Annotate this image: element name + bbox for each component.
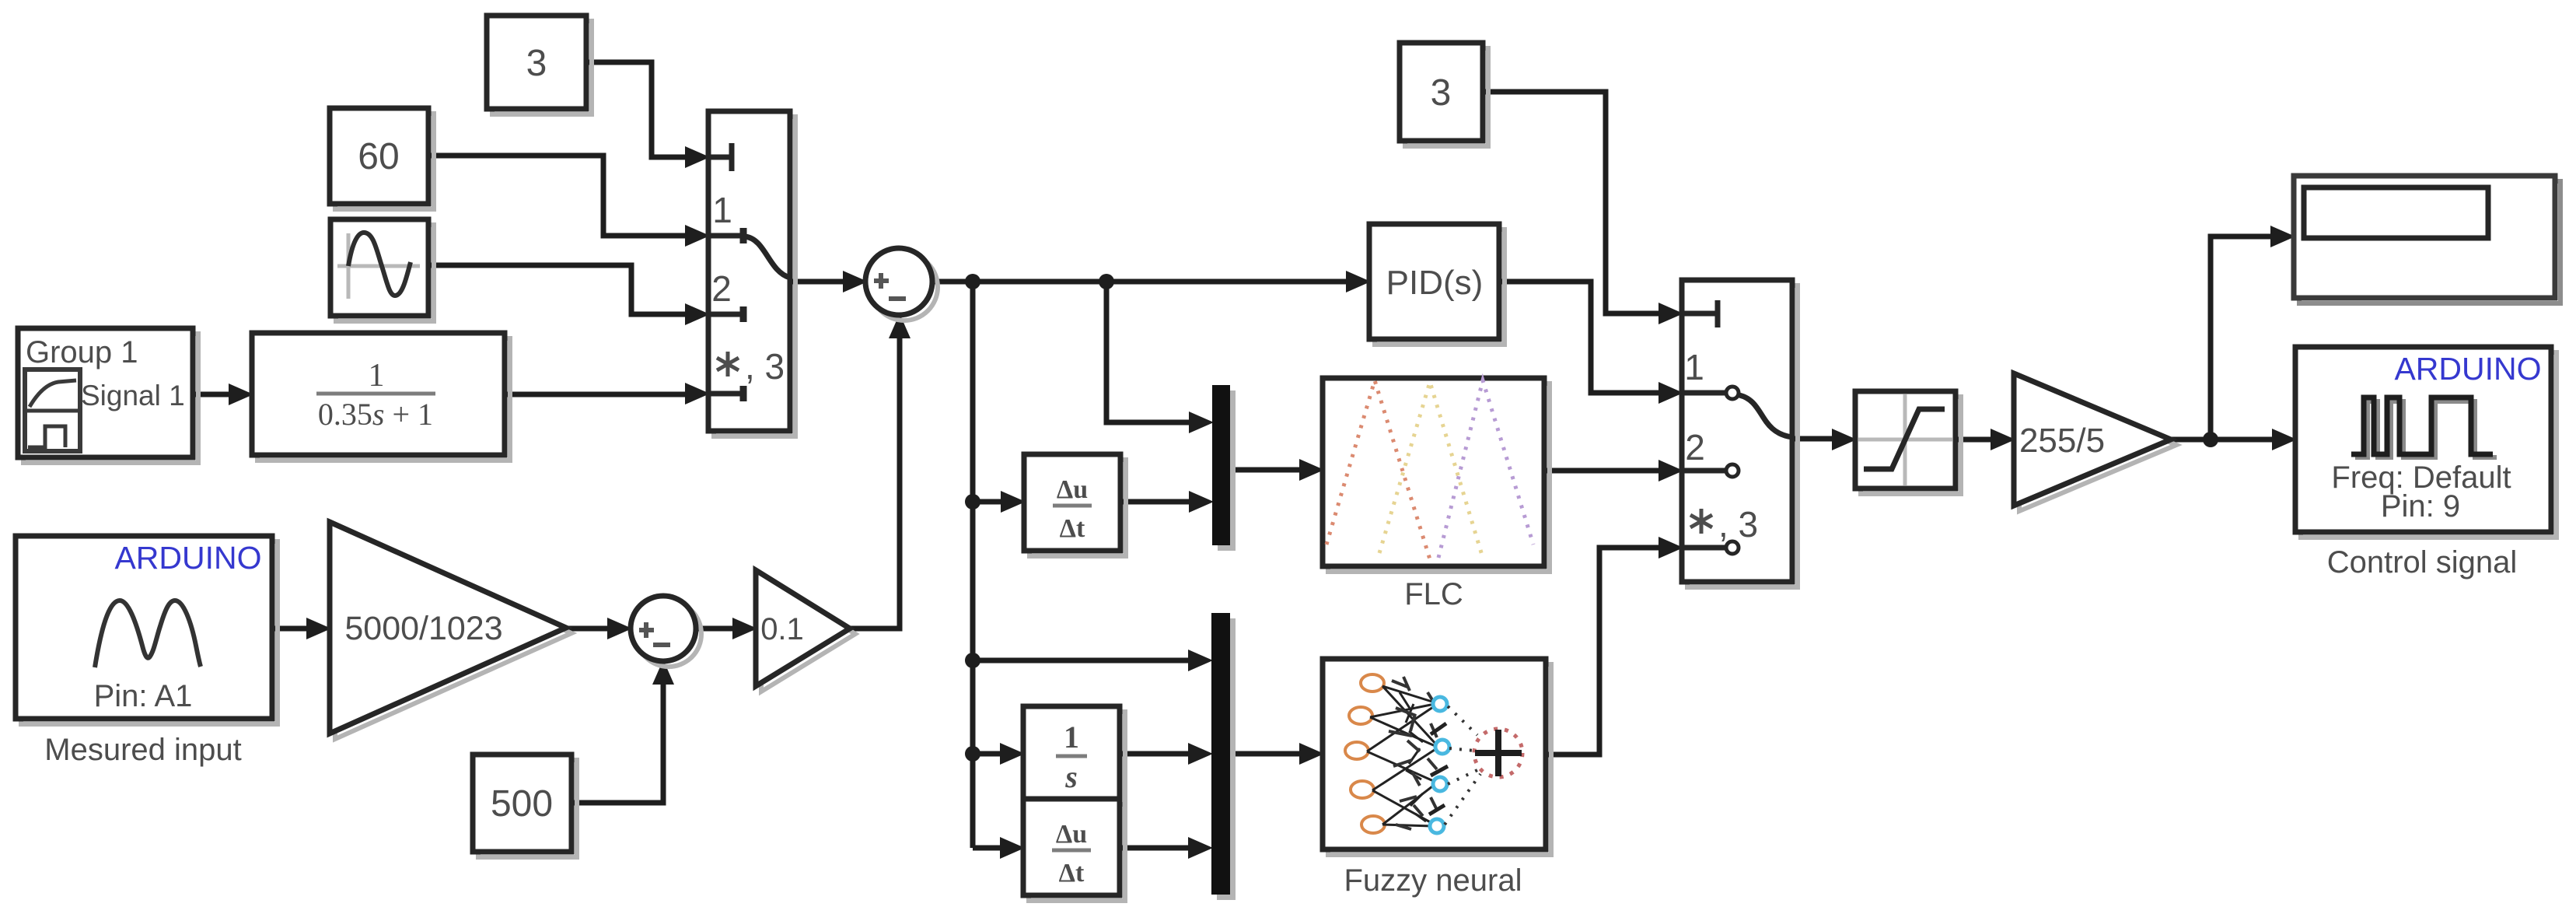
wire to mux2 input 1	[973, 658, 1190, 664]
derivative du/dt 2	[1023, 799, 1125, 901]
wire saturation to gain 255/5	[1956, 437, 1992, 443]
svg-text:5000/1023: 5000/1023	[344, 610, 502, 647]
junction dot B	[1099, 274, 1114, 289]
svg-text:60: 60	[358, 136, 399, 177]
constant 60	[330, 108, 434, 209]
wire switch2 to saturation	[1792, 436, 1833, 442]
wire gain 0.1 up to sum1 minus input	[850, 336, 900, 629]
constant 3 (top left)	[487, 16, 592, 114]
svg-text:FLC: FLC	[1404, 577, 1463, 611]
svg-text:Control signal: Control signal	[2327, 545, 2518, 580]
derivative du/dt 1	[1024, 454, 1126, 556]
wire gain 5000/1023 to sum2	[566, 626, 609, 632]
wire to du/dt 1	[973, 499, 1002, 505]
multiport switch 1	[708, 111, 795, 436]
svg-text:Mesured input: Mesured input	[44, 733, 241, 767]
wire 3a to switch1 port |	[586, 62, 687, 157]
wire transfer fn to switch1 port *,3	[505, 392, 687, 397]
svg-text:Pin: A1: Pin: A1	[94, 679, 193, 713]
svg-text:Δu: Δu	[1056, 820, 1087, 849]
svg-text:255/5: 255/5	[2019, 422, 2105, 460]
constant 500	[473, 755, 577, 857]
sine wave source	[330, 219, 434, 321]
wire FLC to switch2 port 2	[1544, 468, 1660, 474]
wire gain 255/5 to arduino output	[2171, 437, 2274, 443]
transfer fn 1/(0.35s+1)	[252, 333, 510, 460]
wire group1 to transfer fn	[191, 392, 230, 397]
svg-text:3: 3	[1431, 72, 1452, 114]
arduino PWM output block	[2295, 347, 2557, 538]
multiport switch 2	[1682, 280, 1798, 587]
svg-text:0.35s + 1: 0.35s + 1	[318, 397, 433, 432]
svg-text:1: 1	[1684, 347, 1704, 387]
wire switch1 to sum1	[790, 279, 844, 285]
mux 1	[1212, 385, 1236, 551]
svg-text:, 3: , 3	[1718, 504, 1758, 545]
junction dot D	[965, 653, 980, 668]
arduino analog input block	[16, 536, 278, 724]
wire junction F up to display	[2211, 236, 2272, 439]
mux 2	[1211, 613, 1236, 900]
svg-text:1: 1	[369, 358, 385, 394]
svg-text:0.1: 0.1	[760, 612, 804, 646]
wire sum2 to gain 0.1	[696, 626, 734, 632]
wire sine to switch1 port 2	[428, 265, 687, 314]
saturation block	[1855, 391, 1961, 494]
junction dot E	[965, 746, 980, 762]
svg-text:2: 2	[1685, 427, 1705, 468]
svg-text:, 3: , 3	[745, 346, 785, 387]
junction dot C	[965, 494, 980, 510]
wire mux2 to fuzzy neural	[1230, 751, 1301, 757]
integrator 1/s	[1023, 706, 1125, 804]
sum2 circle	[631, 596, 701, 667]
junction dot A	[965, 274, 980, 289]
svg-text:Fuzzy neural: Fuzzy neural	[1344, 863, 1522, 898]
wire branch B down to mux1 input 1	[1106, 282, 1190, 422]
sum1 circle	[865, 248, 938, 320]
display block	[2294, 176, 2560, 303]
wire to integrator 1/s	[973, 751, 1001, 757]
svg-text:500: 500	[491, 783, 553, 825]
svg-text:Δt: Δt	[1059, 859, 1085, 888]
FLC fuzzy logic controller	[1323, 378, 1550, 572]
wire integrator to mux2 input 2	[1120, 751, 1190, 757]
wire branch A vertical trunk	[970, 282, 976, 848]
svg-text:1: 1	[712, 190, 732, 230]
svg-text:2: 2	[711, 268, 732, 309]
svg-text:ARDUINO: ARDUINO	[114, 540, 261, 576]
svg-text:Δt: Δt	[1060, 514, 1085, 543]
wire du/dt 1 to mux1 input 2	[1120, 499, 1190, 505]
wire sum1 to PID	[932, 279, 1347, 285]
svg-text:Group 1: Group 1	[26, 335, 138, 369]
wire mux1 to FLC	[1230, 468, 1301, 473]
wire arduino input to gain 5000/1023	[272, 626, 308, 632]
svg-text:ARDUINO: ARDUINO	[2394, 351, 2541, 387]
svg-text:Pin: 9: Pin: 9	[2381, 489, 2460, 524]
svg-text:PID(s): PID(s)	[1386, 264, 1484, 302]
PID controller	[1369, 224, 1505, 345]
fuzzy neural network block	[1323, 659, 1551, 855]
wire du/dt 2 to mux2 input 3	[1120, 846, 1190, 851]
svg-text:Signal 1: Signal 1	[81, 380, 185, 411]
wire 3b to switch2 port |	[1483, 92, 1660, 313]
svg-text:s: s	[1064, 759, 1078, 794]
svg-text:Δu: Δu	[1057, 475, 1088, 504]
gain 255/5	[2014, 373, 2176, 511]
constant 3 (right)	[1400, 43, 1488, 146]
junction dot F	[2203, 432, 2218, 447]
wire trunk corner to du/dt 2	[973, 846, 1001, 851]
wire 500 to sum2 minus input	[571, 683, 663, 803]
wire 60 to switch1 port 1	[428, 156, 687, 236]
wire PID to switch2 port 1	[1499, 282, 1660, 393]
signal builder Group 1 / Signal 1	[18, 328, 198, 463]
gain 5000/1023	[330, 522, 571, 739]
svg-text:1: 1	[1064, 720, 1079, 755]
svg-text:3: 3	[526, 43, 547, 84]
wire fuzzy neural to switch2 port *,3	[1546, 548, 1660, 755]
gain 0.1	[756, 570, 855, 692]
